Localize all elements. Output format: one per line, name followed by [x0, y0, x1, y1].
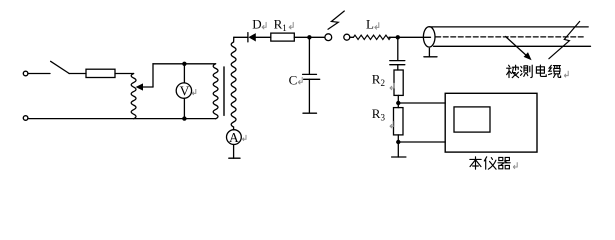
return mark [262, 22, 266, 29]
ground (C) [303, 112, 317, 114]
junction [396, 101, 400, 105]
svg-text:A: A [229, 130, 239, 145]
junction [396, 140, 400, 144]
svg-text:R3: R3 [372, 106, 386, 123]
wire top rail left [153, 63, 216, 65]
spark gap electrode 2 [344, 34, 350, 40]
instrument box [445, 93, 537, 152]
resistor R2 [394, 70, 403, 95]
return mark [390, 121, 394, 128]
glyph 缆 [549, 65, 561, 77]
svg-text:V: V [180, 83, 190, 98]
wire [308, 79, 310, 113]
return mark (ammeter) [242, 135, 246, 141]
spark gap electrode 1 [325, 34, 332, 41]
junction [182, 62, 186, 66]
glyph 被 [507, 65, 519, 77]
resistor R1 [271, 33, 295, 41]
voltmeter V1 [183, 64, 185, 83]
cable core dashed line [436, 36, 585, 38]
spark gap lightning arrow [328, 11, 344, 29]
wire [115, 73, 134, 75]
wire [397, 135, 399, 157]
glyph 测 [521, 65, 533, 77]
wire [397, 65, 399, 70]
callout arrow [506, 37, 528, 57]
diode D [247, 33, 249, 42]
glyph 电 [536, 65, 546, 76]
terminal J1 (top input) [23, 71, 28, 76]
cable top line [430, 26, 588, 28]
ammeter A1 [227, 130, 242, 145]
cable fault lightning [549, 21, 580, 58]
cable sheath ellipse [423, 27, 435, 47]
wire [28, 73, 50, 75]
return mark [375, 23, 379, 30]
transformer T1 primary [213, 64, 218, 119]
wire [233, 145, 235, 159]
coupling capacitor plates [390, 60, 405, 62]
potentiometer wiper arrow [142, 86, 153, 88]
wire [294, 36, 324, 38]
return mark [513, 162, 517, 169]
glyph 本 [470, 157, 481, 169]
wire [69, 73, 86, 75]
svg-text:R2: R2 [372, 72, 385, 89]
return mark [564, 71, 568, 78]
junction [182, 116, 186, 120]
glyph 器 [498, 157, 510, 168]
return mark [298, 77, 302, 84]
junction [307, 35, 311, 39]
wire to diode [234, 36, 248, 38]
transformer core [223, 67, 225, 115]
svg-text:D: D [252, 16, 261, 31]
label 本仪器 [470, 157, 510, 169]
wire [389, 36, 431, 38]
wire [397, 95, 399, 107]
terminal J2 (bottom input) [23, 116, 28, 121]
ground (ammeter) [229, 157, 240, 159]
resistor (series box) [86, 69, 115, 77]
wire bottom rail [28, 118, 215, 120]
svg-text:R1: R1 [274, 16, 287, 33]
transformer T1 secondary [231, 37, 236, 129]
wire to instrument bottom [398, 141, 445, 143]
capacitor C wire [308, 37, 310, 74]
wire divider chain [397, 37, 399, 60]
return mark (voltmeter) [192, 89, 196, 95]
cable bottom line [434, 45, 591, 47]
switch S1 [51, 61, 70, 73]
junction [396, 35, 400, 39]
label 被测电缆 [507, 65, 561, 78]
glyph 仪 [484, 157, 496, 169]
resistor R3 [394, 108, 404, 135]
ground (divider) [392, 156, 406, 158]
wire [256, 36, 271, 38]
ground (cable sheath) [428, 48, 430, 56]
return mark [289, 22, 293, 29]
wire [350, 36, 354, 38]
svg-text:C: C [289, 73, 298, 88]
potentiometer winding [131, 74, 136, 119]
wire to instrument top [398, 102, 445, 104]
instrument screen [454, 107, 490, 132]
return mark [390, 83, 394, 90]
capacitor C plates [303, 73, 317, 75]
inductor L [353, 35, 390, 39]
wire wiper up [152, 64, 154, 87]
svg-text:L: L [366, 17, 374, 32]
